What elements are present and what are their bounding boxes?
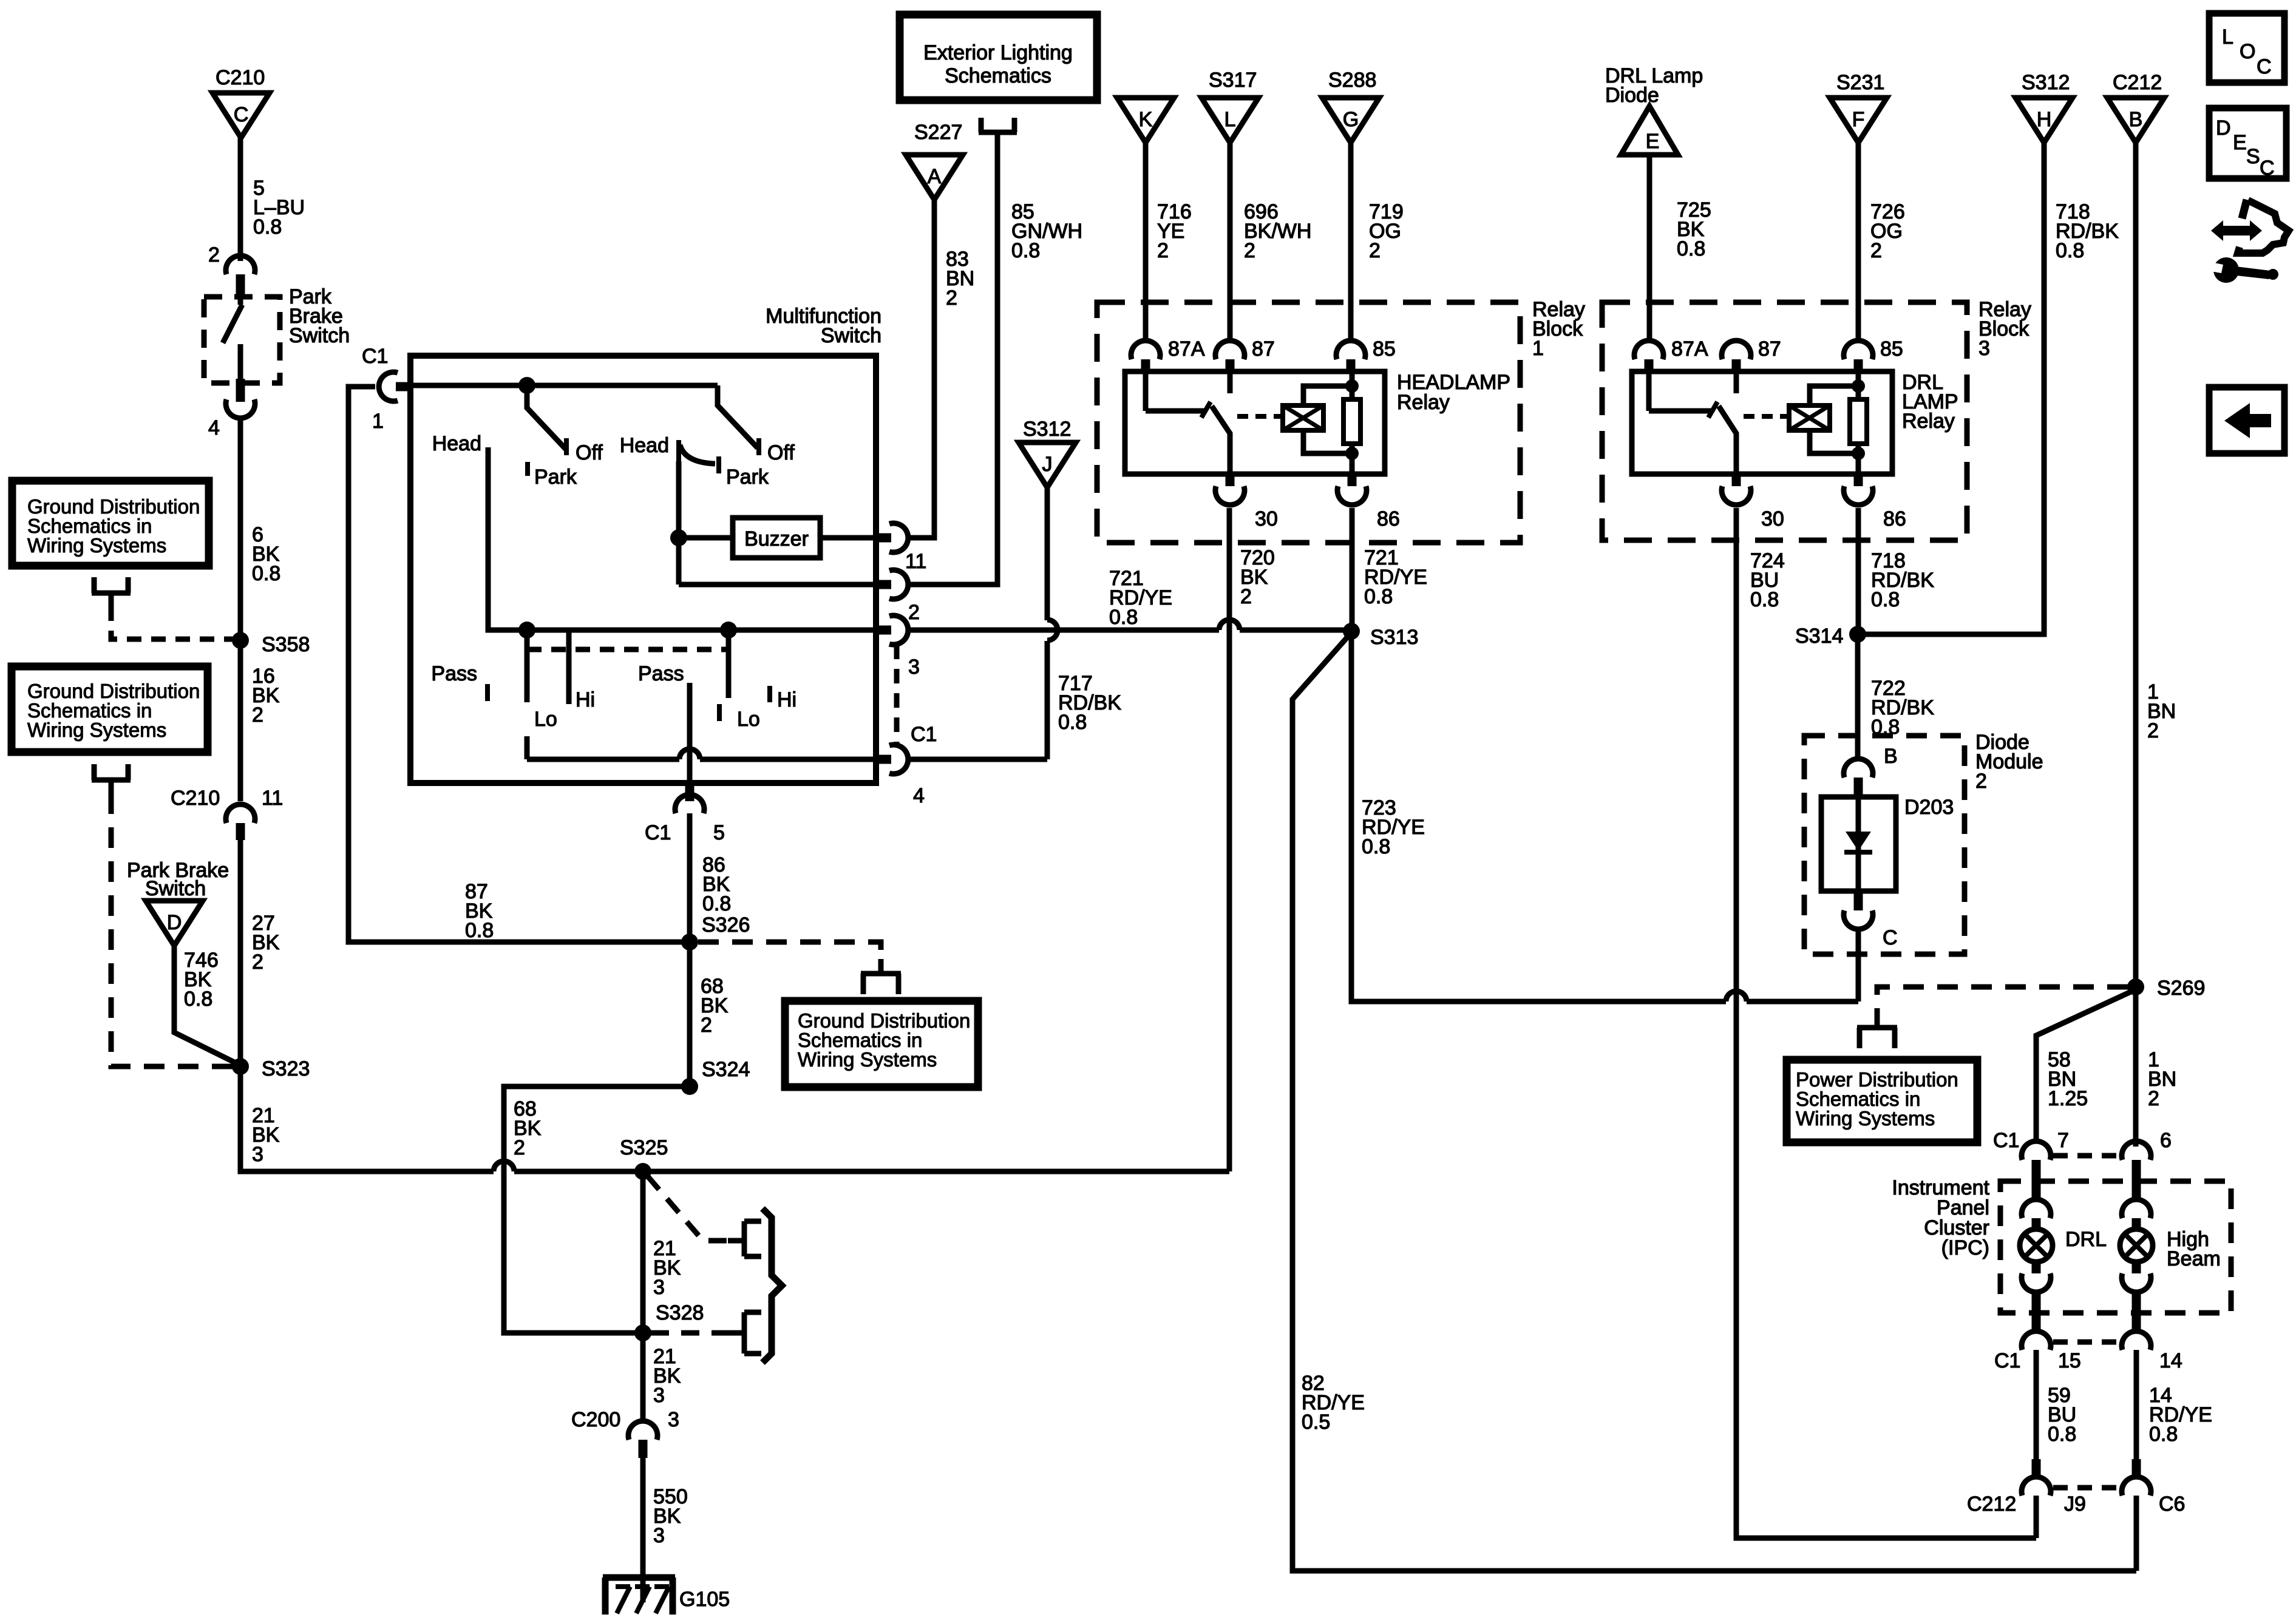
relay block 3 label — [1978, 298, 2031, 360]
wire 724 BU 0.8 : relay3-30 to IPC J9 — [1736, 508, 2036, 1538]
relay block 1 dashed enclosure — [1097, 302, 1520, 543]
svg-text:2: 2 — [252, 951, 263, 974]
connector triangle K — [1117, 98, 1174, 143]
pin 3 — [876, 615, 920, 679]
svg-text:S324: S324 — [702, 1058, 750, 1081]
wire 58 BN 1.25 : S269 to IPC C1-7 — [2036, 991, 2132, 1143]
svg-text:87: 87 — [1758, 337, 1781, 361]
svg-text:Relay: Relay — [1397, 391, 1450, 414]
DRL relay 87 contact — [1734, 374, 1739, 393]
diode module pin C — [1844, 891, 1898, 949]
ground symbol bracket above box 3 — [861, 959, 901, 994]
svg-text:S358: S358 — [262, 633, 310, 656]
svg-text:E: E — [1646, 130, 1660, 153]
connector triangle H / S312 — [2016, 71, 2073, 143]
low beam common wire to pin 4 — [527, 749, 876, 759]
power distribution box — [1787, 1060, 1977, 1142]
svg-text:B: B — [1884, 745, 1898, 768]
svg-text:A: A — [928, 165, 942, 188]
wire Head(right) down to buzzer node — [670, 461, 687, 585]
left switch Park contact — [528, 462, 577, 489]
DRL lamp relay box — [1632, 371, 1892, 474]
wire 86 BK 0.8 : pin5 to S326 — [690, 813, 731, 942]
relay block3 pin 85 — [1844, 337, 1903, 374]
wire Head to low-beam common — [488, 447, 527, 630]
wire 85 GN/WH 0.8 : pin 2 to exterior lighting — [910, 131, 1082, 585]
svg-text:Diode: Diode — [1605, 84, 1659, 107]
DRL indicator terminal top — [2022, 1199, 2051, 1230]
park brake switch contacts — [223, 285, 242, 379]
svg-text:Head: Head — [432, 432, 481, 455]
connector triangle B / C212 — [2107, 71, 2164, 143]
svg-text:J: J — [1042, 453, 1053, 476]
svg-text:D: D — [167, 911, 182, 934]
diode module 2 dashed enclosure — [1804, 736, 1965, 954]
dashed link box2 to S323 — [111, 793, 234, 1066]
wire 716 YE 2 : K to relay 87A — [1146, 143, 1192, 339]
headlamp relay coil top link — [1303, 371, 1359, 405]
IPC connector C1 pin 6 — [2122, 1129, 2172, 1198]
svg-text:C1: C1 — [362, 345, 388, 368]
relay block3 pin 87A — [1634, 337, 1708, 374]
svg-text:0.8: 0.8 — [253, 215, 282, 239]
svg-text:2: 2 — [946, 286, 957, 310]
svg-text:S317: S317 — [1209, 69, 1257, 92]
right headlamp switch: arm to Off — [718, 385, 795, 464]
multifunction switch box — [410, 356, 876, 783]
svg-text:1.25: 1.25 — [2048, 1087, 2088, 1110]
svg-text:87A: 87A — [1168, 337, 1205, 361]
High Beam lamp bottom terminal — [2122, 1261, 2151, 1329]
internal wire to pin 2 — [679, 582, 876, 588]
left dimmer: Lo contact — [527, 630, 557, 731]
wire 83 BN 2 : pin 11 to S227-A — [910, 200, 974, 538]
multifunction switch label — [766, 305, 881, 347]
pin 4 — [876, 745, 925, 807]
relay block3 pin 86 — [1844, 474, 1906, 530]
svg-text:7: 7 — [2057, 1129, 2069, 1152]
wire 717 RD/BK 0.8 : pin 4 to S312-J — [910, 485, 1121, 759]
svg-text:Off: Off — [767, 441, 795, 464]
svg-text:Hi: Hi — [777, 688, 796, 711]
svg-text:D: D — [2216, 117, 2231, 140]
back arrow button — [2209, 387, 2284, 453]
wire 21 BK 3 : S328 to C200 — [643, 1333, 681, 1423]
wire 720 BK 2 : relay1-30 to S325 ground run — [1229, 508, 1275, 1171]
svg-text:C210: C210 — [171, 787, 220, 810]
svg-text:14: 14 — [2159, 1349, 2182, 1372]
ground distribution box 1 — [12, 481, 209, 566]
headlamp relay label — [1397, 371, 1510, 414]
right switch Park contact and wiper arc — [680, 445, 769, 489]
svg-text:87A: 87A — [1671, 337, 1708, 361]
svg-text:C: C — [1883, 926, 1898, 949]
svg-text:2: 2 — [908, 601, 920, 624]
svg-text:Switch: Switch — [145, 877, 206, 900]
svg-text:2: 2 — [2148, 1087, 2159, 1110]
svg-text:1: 1 — [372, 410, 384, 433]
buzzer output wire to pin 11 — [820, 535, 876, 541]
svg-text:3: 3 — [252, 1143, 263, 1166]
brace to ground distribution box 3 — [763, 1208, 782, 1363]
svg-text:D203: D203 — [1904, 796, 1954, 819]
svg-text:0.8: 0.8 — [1011, 239, 1040, 262]
connector C210 pin 11 (in-line) — [171, 787, 283, 840]
svg-text:30: 30 — [1255, 507, 1278, 530]
svg-text:2: 2 — [1157, 239, 1169, 262]
svg-text:0.8: 0.8 — [2056, 239, 2084, 262]
svg-text:C212: C212 — [1967, 1493, 2016, 1516]
wire 718 RD/BK 0.8 : relay3-86 to S314 — [1858, 508, 1934, 634]
DESC button — [2209, 108, 2286, 180]
headlamp relay 87 contact — [1228, 374, 1233, 393]
park brake switch destination label — [127, 859, 229, 900]
left switch Off label — [576, 441, 603, 464]
svg-text:2: 2 — [252, 703, 263, 727]
DRL relay armature — [1719, 406, 1736, 474]
ground symbol bracket under box 2 — [92, 764, 131, 793]
svg-text:F: F — [1852, 108, 1865, 131]
connector C1 dashed boundary — [897, 645, 937, 746]
svg-text:4: 4 — [913, 784, 925, 807]
headlamp relay coil — [1283, 405, 1323, 430]
svg-text:Pass: Pass — [638, 662, 684, 685]
svg-text:C1: C1 — [645, 821, 671, 844]
wire 726 OG 2 : F to relay3 85 — [1858, 143, 1905, 339]
svg-text:86: 86 — [1883, 507, 1906, 530]
relay block 1 label — [1532, 298, 1585, 360]
svg-text:2: 2 — [1369, 239, 1381, 262]
svg-text:Head: Head — [620, 434, 669, 457]
park brake switch label — [289, 285, 350, 347]
relay block3 pin 87 — [1722, 337, 1781, 374]
wire 68 BK 2 : S324 to S328 — [504, 1086, 690, 1333]
mechanical link dashed — [527, 647, 729, 652]
diode module label — [1975, 731, 2043, 793]
wire J9 to 724 BU run — [2034, 1496, 2039, 1538]
svg-text:K: K — [1139, 108, 1153, 131]
headlamp relay box — [1125, 371, 1385, 474]
svg-text:E: E — [2233, 131, 2247, 154]
power distribution bracket — [1857, 1013, 1897, 1048]
IPC bottom connector C1-15 — [1994, 1331, 2081, 1372]
DRL relay coil bottom link — [1810, 430, 1865, 474]
splice S314 — [1795, 625, 1866, 648]
wire 59 BU 0.8 — [2036, 1350, 2076, 1459]
connector triangle F / S231 — [1830, 71, 1887, 143]
wire 27 BK 2 — [240, 840, 280, 1066]
svg-text:B: B — [2129, 108, 2143, 131]
DRL relay 87A contact — [1649, 374, 1717, 418]
splice S313 — [1343, 623, 1418, 649]
svg-text:S328: S328 — [656, 1301, 704, 1324]
svg-text:DRL: DRL — [2065, 1228, 2107, 1251]
svg-text:0.8: 0.8 — [1871, 588, 1900, 611]
svg-text:O: O — [2240, 40, 2255, 63]
right dimmer: Lo contact — [719, 630, 760, 731]
splice S326 — [681, 913, 750, 951]
svg-text:J9: J9 — [2064, 1493, 2086, 1516]
relay block3 pin 30 — [1722, 474, 1784, 530]
wire 719 OG 2 : G to relay 85 — [1351, 143, 1404, 339]
wire 721 RD/YE 0.8 : relay1-86 to S313 — [1352, 508, 1427, 630]
svg-text:H: H — [2037, 108, 2052, 131]
DRL lamp relay label — [1902, 371, 1958, 433]
High Beam indicator lamp — [2120, 1228, 2221, 1270]
svg-text:11: 11 — [262, 787, 283, 810]
svg-text:Beam: Beam — [2167, 1247, 2221, 1270]
svg-text:Hi: Hi — [576, 688, 595, 711]
connector dashed link — [2053, 1485, 2121, 1491]
diode module pin B — [1844, 745, 1898, 797]
wire 718 RD/BK 0.8 : H to S314 — [1858, 143, 2119, 634]
dashed link S328 to ground symbol — [651, 1330, 743, 1336]
svg-text:0.8: 0.8 — [1058, 711, 1087, 734]
wire 16 BK 2 — [240, 640, 280, 801]
internal feed wire to both switches — [410, 377, 718, 394]
relay block1 pin 86 — [1337, 474, 1400, 530]
relay block1 pin 30 — [1215, 474, 1278, 530]
wire 725 BK 0.8 : E to relay3 87A — [1649, 155, 1711, 339]
park brake switch (dashed box) — [204, 297, 280, 383]
wire 722 RD/BK 0.8 : S314 to diode module B — [1858, 634, 1934, 757]
svg-text:L: L — [2222, 25, 2233, 49]
svg-text:Lo: Lo — [534, 708, 557, 731]
IPC connector C1 pin 7 — [1993, 1129, 2069, 1198]
connector triangle E (DRL lamp diode) — [1621, 106, 1678, 155]
svg-text:C: C — [2257, 55, 2272, 78]
left dimmer lower contact to common — [525, 736, 530, 759]
svg-text:Pass: Pass — [431, 662, 477, 685]
svg-text:L: L — [1224, 108, 1236, 131]
svg-text:0.8: 0.8 — [184, 988, 212, 1011]
splice S358 — [232, 632, 310, 656]
right switch Head contact — [620, 434, 679, 461]
splice S324 — [681, 1058, 750, 1095]
svg-text:3: 3 — [668, 1408, 679, 1431]
connector C212 J9 — [1967, 1459, 2086, 1516]
svg-text:S326: S326 — [702, 913, 750, 937]
DRL relay coil link dashed — [1744, 414, 1787, 419]
svg-text:6: 6 — [2160, 1129, 2172, 1152]
ground G105 — [603, 1578, 730, 1615]
instrument panel cluster label — [1892, 1176, 1989, 1259]
svg-text:2: 2 — [1975, 770, 1987, 793]
svg-text:2: 2 — [1244, 239, 1255, 262]
diode D203 box — [1821, 796, 1954, 891]
headlamp relay resistor — [1343, 399, 1360, 444]
buzzer — [733, 518, 820, 558]
right dimmer: Hi contact — [770, 686, 796, 711]
svg-text:S288: S288 — [1328, 69, 1376, 92]
dashed link box1 to S358 — [111, 606, 236, 639]
hand with arrow and wrench icon — [2207, 200, 2289, 283]
connector C210 triangle C — [212, 66, 270, 138]
svg-text:87: 87 — [1252, 337, 1275, 361]
pin 2 connector of park brake switch — [208, 243, 255, 297]
connector C6 — [2122, 1459, 2185, 1516]
connector dashed link — [2053, 1340, 2121, 1345]
svg-text:S312: S312 — [2022, 71, 2070, 94]
svg-text:G: G — [1343, 108, 1359, 131]
internal wire to pin 3 — [518, 622, 876, 639]
svg-text:0.8: 0.8 — [1364, 585, 1393, 608]
svg-text:0.8: 0.8 — [1362, 835, 1390, 858]
svg-text:3: 3 — [653, 1524, 665, 1547]
connector triangle D — [146, 901, 203, 946]
pin 4 connector of park brake switch — [208, 379, 255, 439]
exterior lighting schematics box — [900, 15, 1097, 100]
ground distribution box 2 — [12, 666, 208, 752]
svg-text:S312: S312 — [1023, 418, 1071, 441]
wire 1 BN 2 label (lower) — [2148, 1048, 2176, 1110]
wire 14 RD/YE 0.8 — [2136, 1350, 2212, 1459]
DRL relay coil — [1789, 405, 1830, 430]
svg-text:85: 85 — [1880, 337, 1903, 361]
relay block1 pin 87A — [1131, 337, 1205, 374]
svg-text:Wiring Systems: Wiring Systems — [27, 534, 166, 557]
svg-text:3: 3 — [1978, 337, 1990, 360]
svg-text:Schematics: Schematics — [945, 64, 1051, 87]
svg-text:0.8: 0.8 — [1750, 588, 1779, 611]
svg-text:C1: C1 — [911, 723, 937, 746]
left headlamp switch: arm to Off — [527, 389, 566, 455]
svg-text:Buzzer: Buzzer — [744, 527, 809, 551]
left dimmer: Pass contact — [431, 662, 487, 701]
svg-text:3: 3 — [653, 1276, 665, 1299]
wire 1 BN 2 : B to S269 — [2136, 143, 2176, 1147]
DRL lamp bottom terminal — [2022, 1261, 2051, 1329]
left switch Head contact — [432, 432, 481, 455]
svg-text:30: 30 — [1761, 507, 1784, 530]
High Beam indicator terminal top — [2122, 1199, 2151, 1230]
svg-text:2: 2 — [701, 1014, 712, 1037]
svg-text:S227: S227 — [914, 121, 962, 144]
ground symbol bracket under box 1 — [92, 577, 131, 606]
svg-text:Switch: Switch — [821, 324, 881, 347]
S328 offpage bracket — [744, 1312, 761, 1354]
wire 550 BK 3 : C200 to G105 — [643, 1458, 688, 1602]
connector triangle A / S227 — [906, 121, 963, 200]
bracket under exterior lighting box — [979, 118, 1017, 132]
svg-text:2: 2 — [1240, 585, 1252, 608]
svg-text:3: 3 — [653, 1384, 665, 1407]
buzzer feed wire — [679, 535, 733, 541]
svg-text:S314: S314 — [1795, 625, 1843, 648]
right dimmer: Pass label — [638, 662, 684, 685]
wire 723 RD/YE 0.8 : S313 to diode module C — [1351, 631, 1858, 1001]
connector triangle J / S312 — [1019, 418, 1076, 487]
svg-text:0.8: 0.8 — [465, 919, 494, 942]
svg-text:Park: Park — [726, 466, 769, 489]
svg-text:Park: Park — [534, 466, 577, 489]
wire 68 BK 2 : S326 to S324 — [690, 942, 729, 1086]
svg-text:S: S — [2246, 145, 2260, 168]
wire 5 L-BU 0.8 from C210-C — [240, 138, 305, 261]
svg-text:0.8: 0.8 — [702, 892, 731, 915]
svg-text:0.8: 0.8 — [1677, 237, 1705, 260]
splice S328 — [634, 1301, 704, 1341]
DRL lamp diode label — [1605, 64, 1703, 107]
svg-text:5: 5 — [713, 821, 725, 844]
svg-text:C6: C6 — [2159, 1493, 2185, 1516]
headlamp relay 87A contact — [1146, 374, 1211, 418]
splice S325 — [620, 1136, 668, 1180]
IPC bottom connector C1-14 — [2122, 1331, 2182, 1372]
svg-text:C210: C210 — [216, 66, 265, 89]
wire 87 BK 0.8 : C1-1 to S326 — [348, 387, 690, 942]
svg-text:S231: S231 — [1836, 71, 1884, 94]
wire 696 BK/WH 2 : L to relay 87 — [1230, 143, 1311, 339]
connector C1 dashed link — [2053, 1153, 2121, 1159]
wire 21 BK 3 : S325 to S328 — [643, 1171, 681, 1333]
dashed link S325 to ground symbol — [647, 1176, 743, 1241]
svg-text:0.8: 0.8 — [1109, 606, 1138, 629]
wire 6 BK 0.8 — [240, 420, 280, 640]
svg-text:C1: C1 — [1994, 1349, 2020, 1372]
wire 82 RD/YE 0.5 : S313 to IPC C6 — [1292, 637, 2136, 1571]
svg-text:C212: C212 — [2113, 71, 2162, 94]
svg-text:86: 86 — [1377, 507, 1400, 530]
svg-text:S313: S313 — [1370, 626, 1418, 649]
svg-text:C: C — [234, 103, 249, 126]
svg-text:S269: S269 — [2157, 977, 2205, 1000]
svg-text:1: 1 — [1532, 337, 1544, 360]
wire 746 BK 0.8 from D — [174, 946, 239, 1065]
svg-text:85: 85 — [1373, 337, 1396, 361]
DRL indicator lamp — [2020, 1228, 2107, 1262]
svg-text:2: 2 — [208, 243, 220, 266]
svg-text:2: 2 — [2147, 719, 2159, 742]
svg-text:Relay: Relay — [1902, 410, 1955, 433]
wire 721 RD/YE 0.8 : pin 3 to S313 — [910, 567, 1351, 630]
svg-text:C1: C1 — [1993, 1129, 2019, 1152]
pin 11 — [876, 523, 926, 573]
S325 offpage bracket — [744, 1221, 761, 1256]
connector triangle L / S317 — [1201, 69, 1258, 143]
connector C1 pin 1 — [362, 345, 412, 433]
diode D203 symbol — [1844, 797, 1872, 891]
connector C200 pin 3 — [571, 1408, 679, 1458]
headlamp relay coil bottom link — [1303, 430, 1359, 474]
svg-text:0.8: 0.8 — [2149, 1423, 2178, 1446]
svg-text:15: 15 — [2058, 1349, 2081, 1372]
headlamp relay coil link dashed — [1237, 414, 1281, 419]
svg-text:11: 11 — [905, 550, 926, 573]
DRL relay resistor — [1850, 399, 1867, 444]
svg-text:2: 2 — [514, 1136, 525, 1159]
svg-text:S325: S325 — [620, 1136, 668, 1159]
svg-text:3: 3 — [908, 656, 920, 679]
svg-text:G105: G105 — [679, 1588, 730, 1611]
svg-text:Wiring Systems: Wiring Systems — [1796, 1107, 1935, 1130]
svg-text:0.8: 0.8 — [252, 562, 280, 585]
svg-text:C200: C200 — [571, 1408, 620, 1431]
pin5 contact wire — [687, 683, 693, 783]
dashed link S269 to power distribution — [1877, 987, 2128, 1013]
dashed link S326 to ground symbol — [698, 942, 881, 959]
svg-text:C: C — [2260, 157, 2275, 180]
instrument panel cluster dashed box — [2000, 1181, 2231, 1313]
svg-text:Wiring Systems: Wiring Systems — [798, 1048, 937, 1071]
pin 2 — [876, 570, 920, 624]
svg-text:0.8: 0.8 — [2048, 1423, 2076, 1446]
splice S269 — [2127, 977, 2205, 1000]
svg-text:S323: S323 — [262, 1057, 310, 1080]
svg-text:Switch: Switch — [289, 324, 350, 347]
wire 21 BK 3 S323 to S325 to 720BK — [240, 1066, 1229, 1171]
ground distribution box 3 — [785, 1001, 978, 1087]
